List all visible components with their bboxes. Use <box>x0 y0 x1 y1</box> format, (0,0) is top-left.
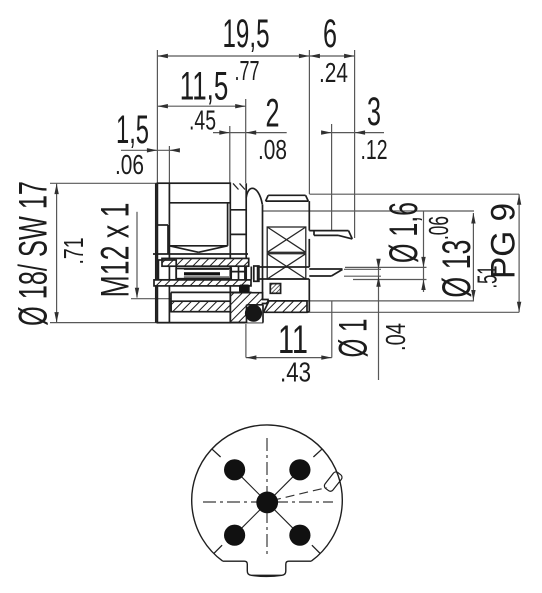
svg-text:2: 2 <box>266 92 280 136</box>
svg-text:11,5: 11,5 <box>180 64 229 108</box>
svg-text:Ø 1: Ø 1 <box>332 319 376 358</box>
svg-text:.08: .08 <box>258 134 287 165</box>
svg-text:M12 x 1: M12 x 1 <box>94 203 138 298</box>
svg-text:.77: .77 <box>235 55 260 86</box>
svg-text:.24: .24 <box>319 57 348 88</box>
svg-text:19,5: 19,5 <box>223 12 270 56</box>
svg-text:PG 9: PG 9 <box>485 203 523 279</box>
svg-text:.45: .45 <box>189 105 216 136</box>
svg-text:1,5: 1,5 <box>116 108 149 152</box>
svg-text:3: 3 <box>367 90 381 134</box>
svg-text:.04: .04 <box>380 323 411 351</box>
svg-text:Ø 1,6: Ø 1,6 <box>382 202 426 263</box>
svg-text:.71: .71 <box>58 238 89 265</box>
svg-text:Ø 18/ SW 17: Ø 18/ SW 17 <box>12 181 56 326</box>
svg-text:.12: .12 <box>361 134 388 165</box>
svg-text:.06: .06 <box>423 216 454 240</box>
svg-text:.06: .06 <box>115 149 144 180</box>
svg-text:6: 6 <box>323 12 337 56</box>
svg-text:.43: .43 <box>280 357 311 388</box>
